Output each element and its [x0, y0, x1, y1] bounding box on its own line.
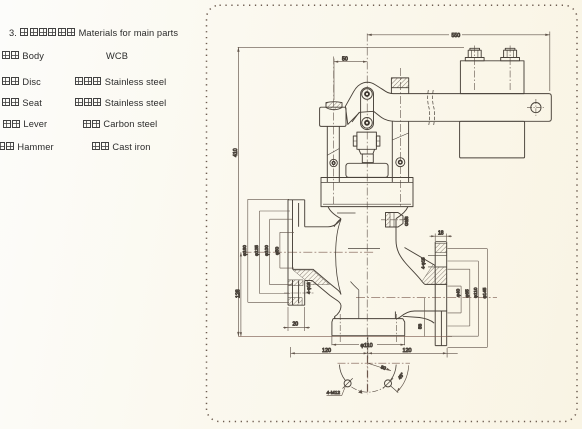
- materials table: [9, 28, 178, 38]
- svg-text:550: 550: [452, 33, 461, 39]
- svg-text:80: 80: [380, 365, 387, 372]
- bottom neck: [335, 312, 396, 319]
- right port bore bottom: [397, 311, 447, 319]
- bottom view centerlines: [338, 362, 411, 364]
- bolt circle arc: bottom dash-dot segment: [351, 387, 384, 392]
- small arrow on centerline: [358, 390, 362, 394]
- svg-text:128: 128: [235, 289, 241, 298]
- guide pin above lever (hatched): [391, 78, 408, 88]
- svg-text:120: 120: [322, 348, 331, 354]
- centerline: right port: [356, 297, 497, 299]
- centerline: bottom flange bolt holes: [340, 314, 396, 342]
- centerline: G3/8 plug: [381, 219, 409, 221]
- bonnet neck right: [396, 207, 408, 219]
- stem: [362, 154, 373, 163]
- stem nut block: [357, 132, 377, 149]
- left flange bolt hole centerline: [284, 292, 314, 294]
- link top pin: [362, 89, 373, 100]
- dimension phi110 bottom: [332, 344, 405, 346]
- svg-text:58: 58: [418, 323, 423, 329]
- disc cap: [346, 163, 388, 177]
- right flange plate: [435, 242, 447, 346]
- left port tube top: [305, 219, 341, 227]
- right hub hatch wedge: [422, 264, 435, 284]
- svg-text:18: 18: [438, 230, 444, 236]
- weight upper block: [460, 61, 524, 94]
- stem nut left ear: [353, 136, 357, 146]
- left flange hatch upper block: [288, 280, 303, 286]
- centerline tick at flange bottom: [367, 337, 369, 342]
- dimension 20: [283, 307, 310, 331]
- left flange plate: [288, 200, 305, 305]
- svg-text:φ100: φ100: [264, 245, 269, 256]
- left column bolt: [330, 159, 337, 166]
- svg-text:20: 20: [293, 322, 299, 328]
- left port bore bottom line: [293, 269, 342, 294]
- left port tube bottom (sectioned): [305, 281, 341, 319]
- right column: [392, 121, 408, 182]
- centerline: right column: [399, 68, 401, 206]
- left flange hatch lower block: [288, 298, 302, 306]
- G3/8 plug: [386, 213, 404, 228]
- svg-text:410: 410: [233, 148, 239, 157]
- bonnet neck left: [328, 207, 341, 219]
- right flange hatch mid: [435, 267, 447, 284]
- body barrel left edge: [334, 219, 341, 227]
- dimension phi110 right: [448, 261, 479, 336]
- svg-text:φ50: φ50: [274, 246, 279, 255]
- svg-text:45°: 45°: [397, 372, 405, 381]
- dimension phi40: [448, 286, 462, 313]
- centerline: main vertical axis: [366, 34, 368, 395]
- bottom flange sides to dim: [332, 336, 405, 346]
- barrel-tube junction saddle curve: [336, 220, 341, 295]
- long bottom extension line: [238, 335, 452, 337]
- right flange bolt hole lines: [428, 255, 447, 267]
- internal seat line: [348, 248, 380, 250]
- stem nut right ear: [376, 136, 380, 146]
- svg-text:φ160: φ160: [242, 245, 247, 256]
- right port bore top: [425, 283, 447, 285]
- bottom flange: [332, 319, 405, 336]
- svg-text:φ40: φ40: [456, 288, 461, 297]
- lever end hole: [531, 103, 541, 113]
- svg-text:φ145: φ145: [482, 287, 487, 298]
- svg-text:φ110: φ110: [473, 287, 478, 298]
- left column: [327, 126, 339, 182]
- body barrel right edge: [396, 219, 425, 285]
- dimension phi50: [280, 232, 294, 268]
- lever arm: [345, 82, 551, 124]
- bonnet flange: [321, 178, 413, 207]
- bolt hole left: [344, 380, 351, 387]
- bolt circle arc: right solid segment: [391, 365, 397, 381]
- dimension phi65: [448, 269, 470, 326]
- weight bolt 1: [465, 48, 484, 61]
- svg-text:G3/8: G3/8: [404, 216, 409, 226]
- dimension phi100: [270, 219, 292, 285]
- centerline: weight bolt 2: [509, 46, 511, 93]
- bolt circle arc: left solid segment: [339, 365, 345, 381]
- dimension phi160: [248, 199, 289, 302]
- svg-text:φ125: φ125: [254, 245, 259, 256]
- dimension 128: [240, 252, 242, 336]
- dimension 50: [334, 59, 367, 101]
- lever left slant inner edge: [352, 112, 359, 122]
- svg-text:φ110: φ110: [361, 343, 373, 349]
- pivot bracket on left column: [320, 107, 346, 126]
- right hub outer line: [405, 248, 436, 266]
- weight lower block: [460, 121, 525, 158]
- stem taper: [359, 149, 375, 154]
- svg-text:120: 120: [403, 348, 412, 354]
- centerline: left port: [243, 251, 375, 253]
- weight bolt 2: [501, 48, 520, 61]
- right column bolt: [396, 158, 405, 167]
- centerline: weight bolt 1: [474, 46, 476, 93]
- left flange hatched tube wall: [293, 270, 330, 285]
- dimension phi125: [260, 211, 291, 294]
- dimension 58: [424, 298, 426, 337]
- bolt circle radius line 80: [368, 363, 391, 371]
- svg-text:50: 50: [342, 56, 348, 62]
- centerline: left column: [333, 57, 335, 207]
- centerline: lever end hole: [527, 99, 545, 117]
- 45 degree arc: [397, 365, 409, 392]
- right port lower outer wall: [403, 316, 434, 323]
- dotted border frame: [207, 5, 578, 421]
- link bottom pin: [362, 118, 373, 129]
- bonnet interior line: [337, 212, 356, 214]
- dimension 550: [367, 32, 550, 92]
- svg-text:4-φ18: 4-φ18: [420, 257, 425, 269]
- lever break lines: [428, 90, 435, 125]
- pivot pin (hatched): [326, 102, 342, 110]
- internal throat: [351, 282, 359, 319]
- link strap: [361, 88, 374, 130]
- dimension 120 120: [291, 347, 458, 359]
- dimension 18: [430, 234, 453, 242]
- svg-text:4-φ18: 4-φ18: [306, 282, 311, 294]
- right flange hatch top: [435, 244, 447, 253]
- dimension 410: [237, 47, 464, 336]
- right hole radial line to 45 arc: [391, 386, 399, 393]
- dimension phi145: [448, 249, 488, 348]
- bolt hole right: [385, 380, 392, 387]
- svg-text:φ65: φ65: [464, 289, 469, 298]
